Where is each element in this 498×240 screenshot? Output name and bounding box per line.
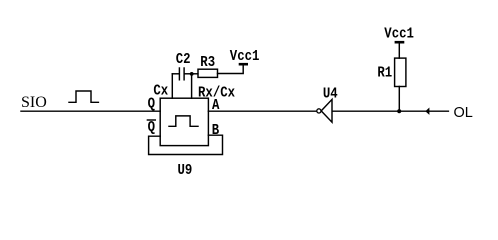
svg-text:Q: Q bbox=[148, 96, 155, 112]
svg-text:Vcc1: Vcc1 bbox=[230, 49, 260, 65]
svg-text:B: B bbox=[212, 123, 219, 139]
svg-text:C2: C2 bbox=[176, 52, 191, 68]
svg-text:SIO: SIO bbox=[21, 94, 47, 111]
svg-text:A: A bbox=[212, 98, 220, 114]
svg-text:R1: R1 bbox=[377, 65, 392, 81]
svg-text:U9: U9 bbox=[178, 163, 193, 179]
svg-text:Q: Q bbox=[148, 120, 155, 136]
svg-text:R3: R3 bbox=[200, 55, 215, 71]
svg-text:Cx: Cx bbox=[153, 84, 168, 100]
svg-text:Vcc1: Vcc1 bbox=[384, 27, 414, 43]
svg-text:U4: U4 bbox=[323, 87, 338, 103]
svg-text:OL: OL bbox=[454, 105, 473, 121]
